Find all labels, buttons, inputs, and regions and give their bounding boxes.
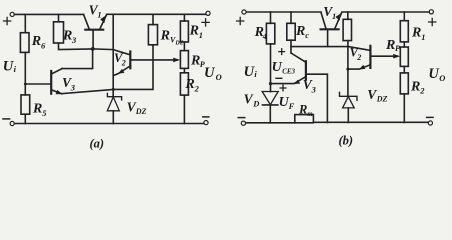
minus sign UCE3: [275, 77, 282, 79]
resistor R2 (a): [180, 73, 188, 95]
wire top rail left segment (b): [246, 11, 321, 13]
resistor above zener (b): [343, 19, 351, 40]
wire V3 emitter to zener node: [62, 90, 113, 94]
svg-text:CE3: CE3: [282, 68, 295, 76]
wire Rp-R2 lead (b): [403, 66, 405, 73]
wire R6 bottom to junction: [24, 52, 26, 84]
svg-text:R: R: [189, 24, 199, 39]
resistor Rc: [287, 23, 295, 40]
terminal + input top-left (b): [242, 10, 246, 14]
transistor V2: [129, 52, 131, 69]
wire R6 top lead: [24, 14, 26, 32]
wire resistor to zener (b): [347, 41, 349, 97]
svg-text:1: 1: [332, 11, 336, 21]
wire junction to V3 base: [25, 83, 50, 85]
wire R5 top lead: [24, 84, 26, 95]
transistor V1: [85, 29, 103, 31]
wire Rc bottom lead: [290, 40, 292, 53]
svg-text:1: 1: [421, 32, 425, 42]
wire RVDZ bottom lead to zener node: [113, 45, 153, 90]
node A junction dot: [91, 47, 95, 51]
wire top rail right segment (b): [342, 11, 429, 13]
svg-text:5: 5: [42, 108, 47, 118]
terminal + input top-left: [10, 12, 14, 16]
resistor R6: [20, 33, 29, 53]
terminal - output bottom-right (a): [204, 121, 208, 125]
wire R1 top lead (b): [403, 12, 405, 21]
svg-text:V: V: [244, 91, 254, 106]
svg-text:R: R: [62, 29, 72, 44]
svg-text:2: 2: [419, 86, 425, 96]
svg-text:4: 4: [262, 32, 267, 41]
plus sign UF: [280, 85, 287, 92]
svg-text:R: R: [31, 34, 41, 49]
svg-text:D: D: [252, 98, 259, 108]
plus sign output (b): [429, 18, 436, 25]
wire V3 collector to node A: [62, 49, 93, 69]
svg-text:3: 3: [71, 35, 77, 45]
svg-text:R: R: [184, 77, 194, 92]
svg-text:1: 1: [97, 10, 101, 20]
wire V2 base wiper arrow into Rp (b): [393, 54, 400, 59]
svg-text:DZ: DZ: [135, 107, 147, 116]
node R6/R5/V3-base junction: [24, 83, 27, 86]
resistor R1 (b): [400, 21, 408, 42]
minus sign input (a): [3, 118, 10, 120]
svg-text:m: m: [307, 110, 313, 118]
svg-text:R: R: [190, 54, 200, 69]
svg-text:1: 1: [199, 30, 203, 40]
potentiometer Rp (a): [180, 51, 188, 69]
svg-text:(b): (b): [339, 134, 354, 148]
svg-text:O: O: [439, 73, 445, 83]
svg-text:U: U: [204, 65, 216, 81]
wire R1-Rp lead (a): [183, 42, 185, 51]
svg-text:P: P: [395, 44, 400, 53]
wire node A to V2 junction: [93, 48, 113, 51]
svg-text:R: R: [32, 102, 42, 117]
wire Rc top lead: [290, 12, 292, 23]
resistor R5: [21, 95, 30, 114]
wire Rp-R2 lead (a): [183, 68, 185, 72]
wire R3 top lead: [58, 14, 60, 21]
wire bottom rail left segment (b): [246, 122, 295, 124]
resistor R4: [266, 23, 274, 44]
wire RVDZ-b top lead: [347, 12, 349, 19]
plus sign input (b): [237, 17, 244, 24]
svg-text:2: 2: [356, 53, 361, 62]
diode VD: [262, 92, 278, 105]
resistor Rm (in bottom rail): [295, 115, 314, 123]
svg-text:(a): (a): [90, 137, 105, 151]
potentiometer Rp (b): [400, 47, 408, 66]
svg-text:R: R: [410, 79, 420, 94]
transistor V3: [50, 71, 52, 94]
svg-text:c: c: [305, 30, 309, 40]
transistor V2 (b): [369, 46, 371, 68]
zener diode VDZ (b): [340, 92, 358, 100]
node V2 emitter junction (b): [346, 68, 349, 71]
wire bottom rail (a): [15, 123, 204, 125]
plus sign UCE3: [278, 48, 285, 55]
minus sign output (b): [427, 116, 433, 118]
plus sign output (a): [202, 19, 209, 26]
zener diode VDZ (a): [107, 94, 121, 100]
node P junction (V3 emitter / VD anode): [269, 82, 272, 85]
svg-text:2: 2: [194, 83, 200, 93]
svg-text:R: R: [411, 25, 421, 40]
wire node Q to V2 collector: [291, 46, 348, 48]
svg-text:3: 3: [311, 84, 317, 94]
minus sign output (a): [203, 116, 209, 118]
svg-text:F: F: [288, 101, 295, 111]
minus sign input (b): [238, 117, 245, 119]
svg-text:DZ: DZ: [376, 94, 388, 103]
wire R1 top lead (a): [183, 14, 185, 21]
svg-text:V: V: [367, 87, 377, 102]
terminal - input bottom-left (b): [241, 121, 245, 125]
wire top rail left segment (a): [15, 13, 84, 15]
svg-text:3: 3: [70, 82, 76, 92]
wire R1-Rp lead (b): [403, 42, 405, 47]
transistor V3 (b): [305, 61, 307, 79]
terminal + output top-right (b): [429, 10, 433, 14]
svg-text:R: R: [298, 102, 307, 116]
resistor R2 (b): [400, 73, 408, 94]
resistor R1 (a): [180, 21, 188, 42]
svg-text:R: R: [160, 29, 170, 44]
svg-text:DZ: DZ: [174, 41, 183, 47]
wire top rail right segment (a): [107, 13, 206, 15]
svg-text:2: 2: [121, 58, 126, 67]
svg-text:O: O: [216, 72, 222, 82]
svg-text:R: R: [295, 24, 305, 39]
wire bottom rail right segment (b): [313, 121, 428, 123]
plus sign input (a): [4, 17, 11, 24]
svg-text:U: U: [272, 60, 283, 75]
terminal - output bottom-right (b): [428, 121, 432, 125]
resistor RVDZ: [148, 25, 157, 45]
wire R5 bottom lead: [24, 114, 26, 123]
wire RVDZ top lead: [152, 14, 154, 24]
resistor R3: [54, 22, 64, 43]
wire R3 bottom lead to node A: [59, 43, 93, 50]
wire R2 bottom lead (a): [183, 95, 185, 123]
wire R4 top lead: [270, 12, 272, 23]
wire main vertical rail-to-zener: [112, 14, 114, 96]
terminal - input bottom-left: [10, 121, 14, 125]
wire V2 base wiper arrow into Rp (a): [173, 58, 180, 63]
wire R4 bottom lead to diode: [270, 44, 272, 92]
svg-text:R: R: [385, 38, 395, 53]
node zener top junction: [112, 88, 115, 91]
terminal + output top-right (a): [206, 11, 210, 15]
wire R2 bottom lead (b): [403, 94, 405, 123]
transistor V1 (b): [321, 28, 339, 30]
